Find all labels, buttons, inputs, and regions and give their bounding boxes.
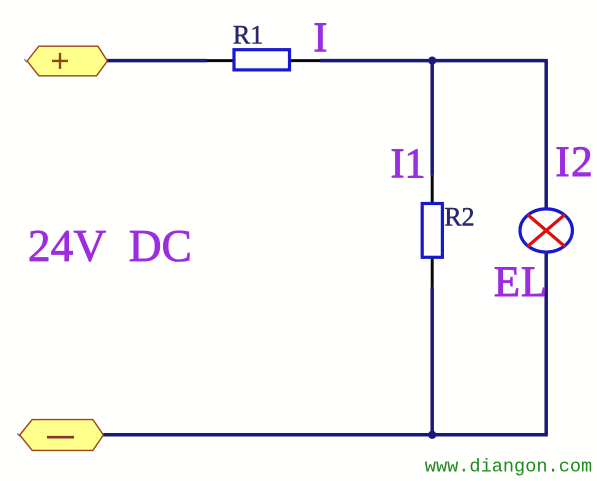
wire: node A down to R2 (net) xyxy=(430,61,434,176)
resistor R1 body xyxy=(234,50,290,70)
wire: R1 to node A (net) xyxy=(320,59,432,63)
positive terminal (+) port xyxy=(27,46,107,76)
resistor R2 pin 2 (black) xyxy=(431,259,434,288)
svg-text:DC: DC xyxy=(129,220,192,271)
svg-text:I: I xyxy=(313,16,327,62)
svg-text:24V: 24V xyxy=(28,220,107,271)
svg-text:EL: EL xyxy=(494,259,548,306)
lamp EL xyxy=(520,209,572,252)
wire: node B to bottom-right corner xyxy=(432,433,548,437)
svg-text:I2: I2 xyxy=(555,138,594,186)
resistor R1 pin 1 (black) xyxy=(207,59,233,62)
wire: R2 to node B (net) xyxy=(430,287,434,434)
pin-end marker at - port tip xyxy=(17,434,20,437)
wire: + terminal to R1 pin (net) xyxy=(107,59,207,63)
pin-end marker at + port tip xyxy=(24,59,27,62)
resistor R2 pin 1 (black) xyxy=(431,175,434,202)
wire: - terminal to node B (net) xyxy=(103,433,432,437)
svg-text:R2: R2 xyxy=(444,203,474,232)
wire: node A to top-right corner xyxy=(432,59,548,63)
resistor R1 pin 2 (black) xyxy=(291,59,320,62)
junction node B xyxy=(428,431,436,439)
svg-text:I1: I1 xyxy=(391,141,426,187)
svg-text:www.diangon.com: www.diangon.com xyxy=(425,456,592,477)
negative terminal (&#8722;) port xyxy=(20,420,104,451)
resistor R2 body xyxy=(422,204,442,258)
junction node A xyxy=(428,57,436,65)
wire: right branch vertical (lamp branch) xyxy=(544,61,548,435)
svg-text:R1: R1 xyxy=(233,20,263,49)
